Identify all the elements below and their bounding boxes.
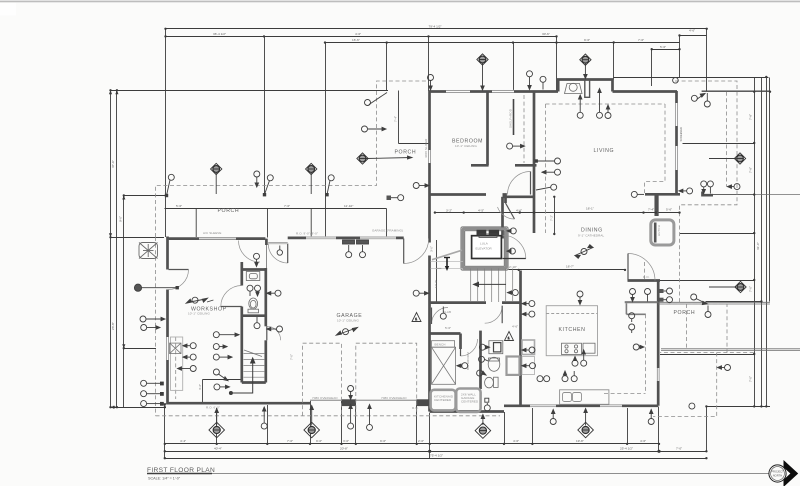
right tick y354 — [660, 354, 755, 356]
bedroom south stub — [503, 195, 506, 204]
se porch floor edge — [658, 301, 770, 303]
window garage north 2 — [360, 236, 396, 239]
closet south wall r — [515, 164, 537, 167]
stair block west wall x241 — [240, 262, 243, 286]
window kitchen south 2 — [600, 404, 622, 407]
bedroom north wall — [429, 90, 559, 93]
keynote triangle 2 — [505, 332, 514, 341]
svg-text:R.O.: R.O. — [412, 406, 419, 410]
dim drop x652 — [651, 50, 653, 87]
svg-text:9'-0": 9'-0" — [380, 439, 386, 443]
bath1 toilet — [249, 298, 258, 309]
west wall door arc — [169, 270, 189, 290]
entry dim box — [398, 91, 400, 144]
bedroom angled door — [506, 203, 515, 219]
bath1 south wall — [243, 314, 266, 317]
svg-text:R.O. 6'-0": R.O. 6'-0" — [206, 406, 220, 410]
left tick y237 — [111, 237, 165, 239]
svg-text:4'-6": 4'-6" — [640, 439, 646, 443]
elevator machine — [477, 230, 487, 236]
bath1 north wall — [242, 268, 266, 271]
living north wall — [613, 90, 678, 93]
dim drop x680 — [679, 36, 681, 78]
fireplace bump — [558, 80, 612, 92]
svg-text:7080 OVERHEAD: 7080 OVERHEAD — [312, 396, 338, 400]
right-bottom dim x706 — [706, 407, 708, 452]
svg-text:7080 OVERHEAD: 7080 OVERHEAD — [381, 396, 407, 400]
svg-text:5'-6": 5'-6" — [445, 326, 451, 330]
left dim x124 — [123, 196, 125, 408]
sym porch4 — [325, 175, 334, 197]
garage pier 2 — [417, 399, 431, 406]
svg-text:7'-6": 7'-6" — [749, 167, 753, 173]
svg-text:KITCHEN: KITCHEN — [559, 327, 586, 333]
svg-text:7'-0": 7'-0" — [676, 446, 682, 450]
svg-text:BATHROOM: BATHROOM — [466, 352, 470, 370]
bath1 syms — [247, 285, 253, 296]
north porch wall mid — [236, 237, 265, 240]
svg-text:75'-4 1/2": 75'-4 1/2" — [430, 453, 443, 457]
dim drop x513 — [513, 43, 515, 92]
dining east wall stub — [656, 195, 659, 217]
sym closet — [507, 143, 525, 149]
stair direction arrow lower — [229, 358, 254, 395]
left tick y407 — [111, 407, 167, 409]
hall wall x502 — [501, 197, 504, 239]
fan ne porch — [709, 153, 746, 164]
ne porch syms — [691, 94, 705, 102]
sym living east b — [542, 169, 561, 175]
garage stair door arc — [267, 326, 281, 340]
under-wall circles — [261, 407, 267, 429]
garage dbl arrow — [336, 328, 357, 336]
dim x554 dining — [554, 197, 556, 234]
svg-text:10'-3": 10'-3" — [434, 280, 438, 288]
svg-text:20'-8": 20'-8" — [340, 446, 348, 450]
living tray dashed — [546, 103, 666, 105]
se porch bottom floor — [661, 348, 800, 350]
svg-text:7'-4": 7'-4" — [394, 116, 398, 122]
right tick y233 — [680, 233, 755, 235]
right tick y77 — [614, 77, 769, 79]
workshop N door arc — [268, 244, 288, 264]
svg-text:37'-6": 37'-6" — [111, 160, 115, 168]
north porch wall left — [167, 237, 200, 240]
dim drop x614 — [613, 43, 615, 80]
fireplace insert — [565, 80, 590, 98]
workshop ne stub — [265, 239, 268, 245]
sym porch3 — [263, 175, 274, 197]
stair block east wall x265 — [264, 268, 267, 326]
workshop ceiling sym — [207, 300, 213, 302]
window bedroom east 2 — [675, 146, 678, 170]
fan bedroom — [477, 54, 488, 90]
bathB toilet — [494, 377, 499, 387]
svg-text:4'-6": 4'-6" — [512, 325, 518, 329]
fan porch right — [306, 163, 317, 194]
svg-text:A/C SLEEVE: A/C SLEEVE — [203, 231, 222, 235]
sym elevator b — [507, 248, 515, 254]
sym living east a — [535, 158, 561, 164]
bench east wall — [459, 334, 462, 350]
workshop dbl arrow — [186, 297, 207, 303]
porch NW dashed roofline — [156, 81, 429, 237]
AC unit outside — [139, 243, 158, 259]
kitchen east wall — [657, 281, 660, 406]
stair rail arrow — [474, 282, 507, 286]
ne porch dashed x726 — [726, 92, 728, 187]
svg-text:LULA: LULA — [480, 242, 488, 246]
closet door arc — [508, 172, 531, 195]
garage bay 2 dashed — [356, 343, 417, 416]
stair south wall — [242, 381, 266, 384]
svg-text:36'-4 1/2": 36'-4 1/2" — [213, 32, 226, 36]
svg-text:R.O.: R.O. — [643, 275, 650, 279]
bathB west wall — [479, 331, 482, 389]
window workshop west — [166, 337, 169, 360]
svg-text:7'-0": 7'-0" — [749, 376, 753, 382]
top grey strip — [0, 1, 800, 3]
sym kitchen counter b — [544, 376, 550, 382]
svg-text:PORCH: PORCH — [218, 208, 240, 214]
sym porch floor a — [630, 289, 636, 302]
svg-text:PORCH: PORCH — [395, 150, 417, 156]
svg-text:4'-6": 4'-6" — [355, 32, 361, 36]
svg-text:16'-1": 16'-1" — [586, 207, 594, 211]
workshop bench counter — [171, 337, 183, 390]
workshop col2 syms — [213, 332, 239, 338]
sym living east c — [536, 184, 557, 190]
stairwell sym — [413, 290, 428, 296]
dim tier4 — [652, 49, 680, 51]
cooktop — [562, 343, 596, 354]
svg-text:4'-6": 4'-6" — [513, 439, 519, 443]
right porch bottom y406 — [707, 406, 771, 408]
dim drop x707 — [706, 29, 708, 92]
garage pier 1 — [342, 399, 357, 406]
svg-text:BENCH: BENCH — [435, 342, 446, 346]
svg-text:R.O. 9'-0"x8'-0": R.O. 9'-0"x8'-0" — [296, 232, 318, 236]
top-left white box — [0, 3, 16, 16]
left exterior syms — [141, 380, 164, 386]
se porch dashed — [660, 304, 727, 353]
sym kitchen counter a — [537, 376, 543, 382]
svg-text:9'-6": 9'-6" — [584, 38, 590, 42]
svg-text:2'-0": 2'-0" — [418, 439, 424, 443]
sym elevator a — [507, 228, 516, 234]
dim tier2 — [166, 36, 557, 38]
south overhang dashed — [156, 415, 501, 417]
svg-text:7'-2": 7'-2" — [550, 215, 554, 221]
svg-text:SCALE: 1/4" = 1'-0": SCALE: 1/4" = 1'-0" — [148, 477, 181, 481]
right dim x770 — [769, 78, 771, 302]
svg-text:ELEVATOR: ELEVATOR — [476, 247, 493, 251]
right dim x766 — [766, 78, 768, 407]
svg-text:1: 1 — [415, 317, 417, 321]
workshop left syms — [140, 316, 165, 322]
sym porch floor b — [645, 289, 651, 302]
svg-text:2'-10": 2'-10" — [509, 265, 517, 269]
bathB syms — [479, 344, 489, 350]
bench north wall — [429, 332, 461, 335]
closet south wall l — [471, 164, 489, 167]
svg-text:SCREENED: SCREENED — [679, 127, 683, 142]
bottom tier1 — [165, 443, 659, 445]
bathB sink oval — [488, 357, 500, 371]
svg-text:10'-1" CEILING: 10'-1" CEILING — [337, 319, 359, 323]
sym bed wall a — [527, 71, 533, 90]
garage opener syms — [346, 245, 352, 258]
right porch floor y91 — [702, 90, 770, 92]
svg-text:30'-6": 30'-6" — [542, 32, 550, 36]
fan porch entry — [357, 153, 412, 164]
ne porch floor line right — [713, 194, 800, 196]
svg-text:10'-1" CEILING: 10'-1" CEILING — [455, 144, 477, 148]
workshop col1 syms — [183, 343, 196, 349]
svg-text:LIVING: LIVING — [594, 148, 615, 154]
porch nw dim string y208.5 — [165, 208, 387, 210]
elevator hall door arc — [503, 235, 526, 258]
mudroom door arc — [461, 339, 478, 356]
garage door line 2 — [356, 399, 417, 401]
sym porch entry2 — [365, 93, 388, 106]
svg-text:3'-2": 3'-2" — [198, 384, 202, 390]
svg-text:79'-4 1/2": 79'-4 1/2" — [428, 25, 441, 29]
keynote triangle — [412, 313, 421, 322]
stairs lower flight — [244, 350, 266, 377]
svg-text:7'-0": 7'-0" — [287, 439, 293, 443]
svg-text:PROJECT: PROJECT — [771, 470, 784, 474]
stairhall south wall — [430, 301, 487, 304]
right tick y143 — [683, 143, 755, 145]
workshop bench dashed — [175, 337, 177, 399]
dim tier3 — [326, 42, 614, 44]
stairs upper flight — [471, 269, 513, 303]
dim tier2r — [614, 42, 680, 44]
window bedroom north 1 — [446, 90, 470, 93]
svg-text:4'-4": 4'-4" — [180, 439, 186, 443]
bathB door arc — [485, 306, 503, 324]
entry door arc — [404, 239, 429, 264]
closet shelf bar — [513, 99, 515, 135]
sym kitchen counter d — [571, 371, 577, 382]
svg-text:40'-4": 40'-4" — [214, 446, 222, 450]
ac sleeve window — [199, 237, 236, 239]
svg-text:5'-6": 5'-6" — [666, 208, 672, 212]
ne roof dashed — [675, 81, 737, 304]
corner circle living ne — [673, 78, 679, 84]
svg-text:3'-0": 3'-0" — [430, 246, 434, 252]
closet rod dashed — [523, 95, 525, 163]
svg-text:7'-0": 7'-0" — [290, 354, 294, 360]
bottom tier3 — [165, 458, 707, 460]
workshop horn — [134, 284, 179, 291]
dim workshop y380 — [203, 379, 241, 381]
mudroom south wall — [430, 410, 505, 413]
svg-text:10'-1" CEILING: 10'-1" CEILING — [188, 312, 210, 316]
svg-text:7'-6": 7'-6" — [284, 204, 290, 208]
workshop bath corridor line — [265, 245, 267, 268]
kitchen fridge cabinets — [522, 340, 535, 355]
ne porch step corner — [703, 192, 714, 196]
kitchen porch door arc — [628, 254, 655, 281]
svg-text:HUTCH: HUTCH — [657, 225, 661, 236]
garage bay 1 dashed — [303, 343, 342, 416]
right dim x754 — [754, 78, 756, 407]
sym corridor a — [254, 253, 260, 266]
svg-text:CENTERED: CENTERED — [461, 400, 479, 404]
window spine entry — [428, 150, 430, 163]
title underline — [147, 473, 212, 475]
dim drop x325 — [325, 43, 327, 238]
svg-text:SHELF+ROD: SHELF+ROD — [509, 108, 513, 128]
hall wall y196.8 — [503, 195, 536, 198]
mudroom syms — [457, 363, 468, 369]
garage ceiling sym — [348, 386, 354, 400]
bedroom south wall — [430, 193, 487, 196]
svg-text:1: 1 — [508, 336, 510, 340]
window bedroom east 1 — [675, 103, 678, 126]
stair hall syms — [508, 290, 519, 296]
kitchen south wall — [504, 404, 658, 407]
sym dining fan sw — [575, 245, 593, 259]
west wall workshop — [166, 237, 169, 270]
dim drop x556 — [556, 37, 558, 92]
dining west niche wall — [654, 195, 657, 216]
garage door line 1 — [310, 399, 342, 401]
right dim x761 — [761, 78, 763, 407]
svg-text:16'-7": 16'-7" — [566, 265, 574, 269]
bedroom2 west wall x534 — [533, 92, 536, 234]
svg-text:9'-0": 9'-0" — [316, 439, 322, 443]
svg-text:5'-6": 5'-6" — [660, 45, 666, 49]
sym dining tee — [631, 191, 644, 197]
svg-text:CENTERED: CENTERED — [434, 398, 452, 402]
spine wall x429 — [428, 91, 431, 150]
fan se porch — [709, 281, 746, 292]
bathB shower — [507, 357, 520, 375]
bench room — [432, 341, 455, 348]
window kitchen south 1 — [530, 404, 556, 407]
svg-text:16'-6": 16'-6" — [352, 38, 360, 42]
garage door openers — [343, 240, 369, 244]
svg-text:4068 SLIDER: 4068 SLIDER — [424, 138, 428, 158]
hall ramp diagonal — [430, 246, 464, 271]
sym corridor b — [277, 246, 282, 256]
workshop panel — [170, 343, 181, 354]
sym porch se outlet — [689, 403, 695, 409]
window bedroom north 2 — [492, 90, 514, 93]
bedroom east wall — [486, 92, 489, 165]
dining north wall tee — [645, 193, 680, 196]
bench door arc — [432, 308, 449, 325]
fan porch left — [211, 163, 222, 194]
svg-text:4'-6": 4'-6" — [689, 29, 695, 33]
sym pantry a — [629, 313, 635, 322]
sym bedroom top — [428, 75, 434, 91]
dim drop x428 — [428, 37, 430, 92]
fan living — [580, 54, 591, 78]
svg-text:5'-6": 5'-6" — [176, 204, 182, 208]
kitchen island — [546, 306, 597, 356]
svg-text:3'-0": 3'-0" — [343, 439, 349, 443]
washer dryer boxes — [431, 390, 456, 411]
sym pantry b — [629, 324, 635, 333]
svg-text:25'-4 1/2": 25'-4 1/2" — [620, 446, 633, 450]
window garage north 1 — [306, 236, 336, 239]
svg-text:4'-5": 4'-5" — [478, 208, 484, 212]
dim tier1 — [166, 28, 707, 30]
sink counter — [560, 390, 609, 405]
kitchen west wall — [519, 271, 522, 406]
bottom drops — [164, 408, 166, 459]
south wall workshop — [167, 402, 311, 405]
svg-text:7'-6": 7'-6" — [638, 38, 644, 42]
window kitchen east — [657, 368, 660, 381]
se porch syms — [691, 294, 708, 305]
sym kitchen east — [633, 344, 644, 350]
svg-text:NORTH: NORTH — [773, 474, 783, 478]
dim drop x387 — [386, 43, 388, 91]
right tick y301 — [706, 301, 762, 303]
right tick y280 — [630, 280, 755, 282]
hutch built-in — [651, 220, 674, 245]
bath1 sink — [246, 272, 259, 313]
dim connector y35.5 — [680, 35, 707, 37]
west overhang dashed — [155, 237, 157, 416]
bottom tier2 — [165, 451, 707, 453]
sym hall sw — [387, 195, 404, 201]
kitchen syms — [522, 347, 535, 353]
porch sq syms — [660, 288, 673, 294]
right tick y195 — [713, 194, 755, 196]
dim drop x165 — [165, 29, 167, 238]
elevator cab — [472, 236, 502, 259]
sym porch entry3 — [362, 126, 387, 132]
svg-text:7'-4": 7'-4" — [648, 208, 654, 212]
kitchen pantry nook walls — [625, 301, 658, 303]
sym kitchen counter c — [562, 371, 568, 382]
svg-text:7'-0": 7'-0" — [749, 286, 753, 292]
bath1 door arc — [221, 286, 242, 307]
dim drop x264 — [264, 37, 266, 196]
sym dining e — [679, 188, 693, 194]
sym hall w — [413, 183, 429, 189]
svg-text:FIRST FLOOR PLAN: FIRST FLOOR PLAN — [147, 467, 215, 474]
porch roof edge y90 — [111, 90, 389, 92]
left tick y195 — [124, 195, 167, 197]
svg-text:9'-1" CATHEDRAL: 9'-1" CATHEDRAL — [578, 234, 604, 238]
kitchen roof dashed x644 — [644, 262, 646, 280]
sym porch2 — [254, 171, 260, 187]
sym fireplace row — [577, 95, 583, 118]
svg-text:19'-8": 19'-8" — [576, 439, 584, 443]
sym bed wall b — [540, 76, 546, 89]
svg-text:PORCH: PORCH — [674, 310, 696, 316]
svg-text:11'-10": 11'-10" — [344, 204, 353, 208]
under-wall diamonds — [209, 409, 225, 438]
dining dim y212 — [435, 212, 680, 214]
north arrow logo — [769, 460, 798, 486]
left dim arrows — [109, 90, 166, 409]
svg-text:23'-8": 23'-8" — [111, 322, 115, 330]
svg-text:9'-0": 9'-0" — [119, 216, 123, 222]
sym porch1 — [165, 174, 175, 197]
dim x436 stair — [436, 240, 438, 302]
svg-text:7'-6": 7'-6" — [749, 114, 753, 120]
svg-text:3'-2": 3'-2" — [446, 208, 452, 212]
svg-text:4'-6": 4'-6" — [516, 208, 522, 212]
